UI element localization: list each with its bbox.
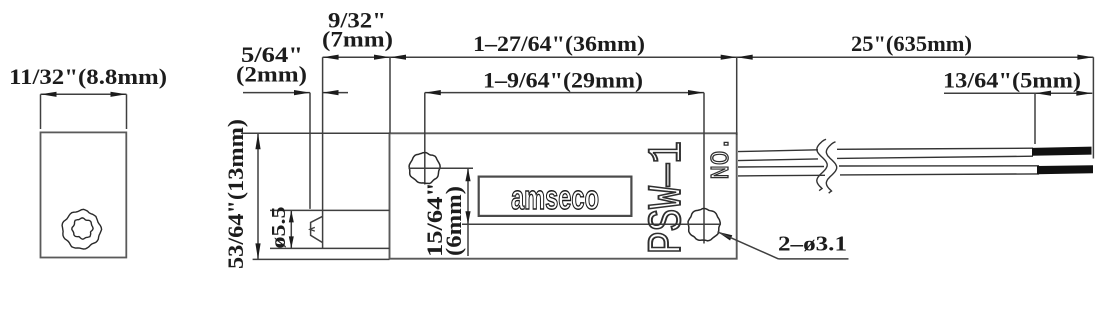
svg-text:2–ø3.1: 2–ø3.1: [778, 232, 847, 256]
svg-text:NO.: NO.: [706, 137, 736, 180]
svg-text:PSW—1: PSW—1: [641, 141, 694, 254]
svg-text:ø5.5: ø5.5: [268, 207, 290, 249]
svg-text:53/64"(13mm): 53/64"(13mm): [223, 119, 248, 269]
svg-text:amseco: amseco: [511, 179, 599, 217]
svg-text:(6mm): (6mm): [441, 186, 466, 256]
svg-text:1–9/64"(29mm): 1–9/64"(29mm): [483, 68, 643, 93]
svg-text:11/32"(8.8mm): 11/32"(8.8mm): [9, 64, 167, 89]
svg-text:25"(635mm): 25"(635mm): [851, 31, 972, 56]
svg-text:(7mm): (7mm): [322, 27, 393, 52]
svg-text:13/64"(5mm): 13/64"(5mm): [943, 68, 1081, 93]
svg-text:(2mm): (2mm): [236, 62, 307, 87]
svg-text:1–27/64"(36mm): 1–27/64"(36mm): [473, 31, 645, 56]
